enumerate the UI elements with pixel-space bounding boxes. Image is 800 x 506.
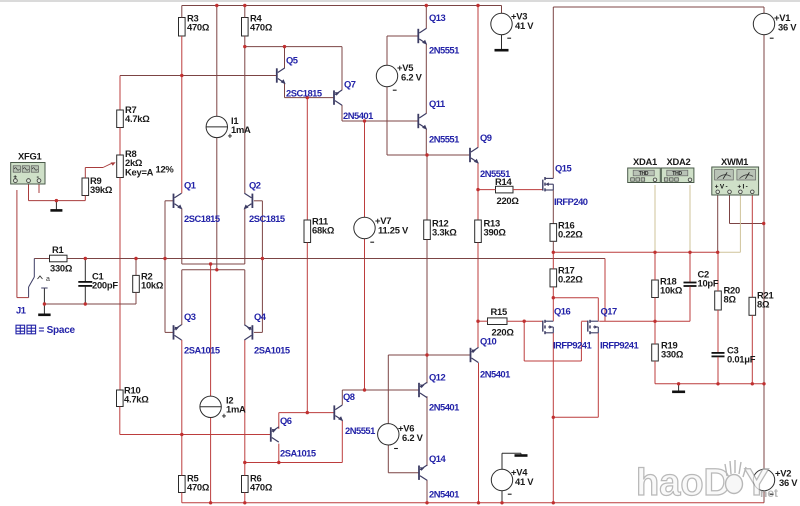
svg-text:6.2 V: 6.2 V <box>401 72 423 83</box>
svg-text:R15: R15 <box>491 306 507 317</box>
svg-text:Q9: Q9 <box>480 132 492 143</box>
svg-text:3.3kΩ: 3.3kΩ <box>432 227 457 238</box>
svg-text:haoD: haoD <box>636 462 731 504</box>
svg-text:R1: R1 <box>52 244 64 255</box>
svg-text:2SA1015: 2SA1015 <box>254 345 290 356</box>
svg-text:2N5551: 2N5551 <box>429 134 459 145</box>
svg-text:220Ω: 220Ω <box>497 195 520 206</box>
svg-text:2SC1815: 2SC1815 <box>286 88 322 99</box>
svg-text:0.22Ω: 0.22Ω <box>558 229 583 240</box>
svg-text:XDA1: XDA1 <box>633 156 657 167</box>
svg-text:Q5: Q5 <box>286 55 298 66</box>
svg-text:net: net <box>760 486 778 500</box>
svg-text:IRFP240: IRFP240 <box>554 196 588 207</box>
svg-text:a: a <box>46 276 50 283</box>
svg-text:4.7kΩ: 4.7kΩ <box>125 113 150 124</box>
svg-text:2SC1815: 2SC1815 <box>184 213 220 224</box>
svg-text:Q13: Q13 <box>429 12 446 23</box>
svg-text:Key=A: Key=A <box>125 167 154 178</box>
svg-text:39kΩ: 39kΩ <box>90 184 113 195</box>
svg-text:10kΩ: 10kΩ <box>141 280 164 291</box>
svg-text:330Ω: 330Ω <box>50 263 73 274</box>
svg-text:2N5551: 2N5551 <box>480 168 510 179</box>
svg-text:Q12: Q12 <box>429 372 446 383</box>
svg-text:Q17: Q17 <box>601 306 618 317</box>
svg-text:IRFP9241: IRFP9241 <box>553 340 591 351</box>
svg-text:THD: THD <box>639 171 649 177</box>
svg-text:Q15: Q15 <box>555 163 572 174</box>
svg-text:470Ω: 470Ω <box>187 22 210 33</box>
svg-text:41 V: 41 V <box>515 20 534 31</box>
svg-text:+ V -: + V - <box>715 184 728 191</box>
svg-text:THD: THD <box>672 171 682 177</box>
svg-text:2SA1015: 2SA1015 <box>184 345 220 356</box>
svg-text:2N5551: 2N5551 <box>429 45 459 56</box>
svg-text:Q8: Q8 <box>343 391 355 402</box>
svg-text:XWM1: XWM1 <box>721 156 748 167</box>
svg-text:Q16: Q16 <box>554 306 571 317</box>
svg-text:Q14: Q14 <box>429 453 447 464</box>
svg-text:10kΩ: 10kΩ <box>660 285 683 296</box>
svg-text:2SA1015: 2SA1015 <box>280 448 316 459</box>
svg-text:470Ω: 470Ω <box>250 22 273 33</box>
svg-text:2N5401: 2N5401 <box>429 489 459 500</box>
svg-text:Q3: Q3 <box>184 311 196 322</box>
svg-text:1mA: 1mA <box>231 124 251 135</box>
svg-text:12%: 12% <box>156 164 175 175</box>
svg-text:XFG1: XFG1 <box>18 151 42 162</box>
svg-text:470Ω: 470Ω <box>187 482 210 493</box>
svg-text:+ I -: + I - <box>737 184 747 191</box>
svg-text:Q10: Q10 <box>480 336 497 347</box>
svg-text:200pF: 200pF <box>92 280 118 291</box>
svg-text:Q4: Q4 <box>254 311 267 322</box>
svg-text:10pF: 10pF <box>698 278 719 289</box>
svg-text:390Ω: 390Ω <box>484 227 507 238</box>
svg-text:Q11: Q11 <box>429 98 445 109</box>
svg-text:68kΩ: 68kΩ <box>312 225 335 236</box>
svg-text:330Ω: 330Ω <box>661 349 684 360</box>
svg-text:= Space: = Space <box>39 325 76 336</box>
svg-text:2SC1815: 2SC1815 <box>249 213 285 224</box>
svg-text:XDA2: XDA2 <box>667 156 691 167</box>
svg-text:IRFP9241: IRFP9241 <box>600 340 638 351</box>
svg-text:Q2: Q2 <box>249 180 261 191</box>
svg-text:8Ω: 8Ω <box>724 294 737 305</box>
svg-text:Q6: Q6 <box>280 415 292 426</box>
svg-text:0.22Ω: 0.22Ω <box>558 274 583 285</box>
svg-text:6.2 V: 6.2 V <box>402 432 424 443</box>
svg-text:Q1: Q1 <box>184 180 196 191</box>
svg-text:0.01μF: 0.01μF <box>727 354 756 365</box>
svg-text:2N5551: 2N5551 <box>345 425 375 436</box>
svg-text:2N5401: 2N5401 <box>343 110 373 121</box>
svg-text:2N5401: 2N5401 <box>429 402 459 413</box>
svg-text:36 V: 36 V <box>778 22 797 33</box>
svg-text:36 V: 36 V <box>779 477 798 488</box>
svg-text:Q7: Q7 <box>344 79 356 90</box>
svg-text:470Ω: 470Ω <box>250 482 273 493</box>
svg-text:2N5401: 2N5401 <box>480 369 510 380</box>
svg-text:1mA: 1mA <box>226 404 246 415</box>
svg-text:8Ω: 8Ω <box>757 299 770 310</box>
svg-text:11.25 V: 11.25 V <box>378 225 409 236</box>
svg-text:4.7kΩ: 4.7kΩ <box>124 394 149 405</box>
svg-text:41 V: 41 V <box>515 476 534 487</box>
svg-text:J1: J1 <box>16 305 26 316</box>
